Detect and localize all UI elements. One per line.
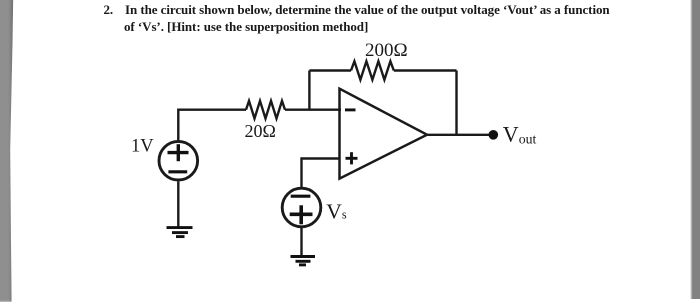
wire: non-inverting input from Vs [302, 159, 341, 188]
resistor R2 200ohm [351, 61, 394, 79]
resistor R1 20ohm [246, 101, 285, 119]
1V source minus sign [168, 170, 187, 173]
wire: feedback left leg [308, 71, 310, 110]
wire: Vs source bottom to ground [300, 228, 302, 256]
node Vout dot [489, 130, 499, 140]
wire: feedback right leg down to output [455, 71, 457, 135]
right page-edge gray strip [688, 0, 700, 299]
svg-text:20Ω: 20Ω [245, 121, 276, 141]
svg-text:Vs: Vs [326, 199, 347, 223]
1V source plus sign [168, 151, 189, 154]
Vs source minus sign [291, 195, 311, 198]
svg-text:1V: 1V [131, 137, 154, 157]
op-amp plus sign [346, 157, 358, 160]
wire: resistor to op-amp inverting input [285, 108, 341, 110]
svg-text:200Ω: 200Ω [365, 40, 408, 61]
voltage source V1 1V circle [159, 141, 198, 180]
left page-edge gray strip [0, 0, 16, 302]
Vs source plus sign [290, 213, 313, 217]
wire: feedback top left segment [309, 69, 351, 71]
problem text [104, 3, 114, 16]
voltage source Vs circle [282, 188, 321, 227]
wire: 1V source top to inverting input (horizontal rail) [178, 110, 246, 141]
wire: 1V source bottom to ground [177, 182, 179, 227]
wire: feedback top right segment [394, 69, 457, 71]
ground for Vs source [291, 255, 316, 258]
svg-text:Vout: Vout [503, 121, 537, 146]
op-amp U1 triangle [340, 89, 428, 179]
op-amp minus sign [345, 108, 356, 111]
wire: op-amp output to Vout node [427, 134, 492, 136]
ground for 1V source [167, 226, 193, 229]
